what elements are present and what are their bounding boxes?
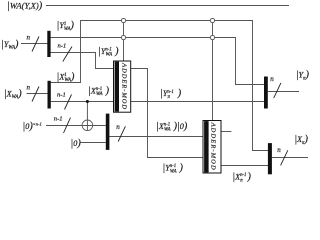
junction dot on X n-1 wire — [86, 100, 89, 103]
svg-text:|0): |0) — [70, 138, 81, 149]
svg-text:n: n — [116, 123, 120, 131]
slash n-1 on Y bundle — [63, 47, 72, 62]
svg-text:|Y1WA): |Y1WA) — [57, 20, 75, 32]
wire Y pi output — [268, 91, 299, 93]
slash n on X input — [32, 87, 39, 102]
svg-text:n: n — [277, 146, 281, 154]
wire adder2 top output stub — [221, 131, 232, 133]
merge bar zero registers — [106, 114, 110, 150]
slash n on X pi output — [281, 150, 288, 165]
op box ADDER-MOD U2 — [203, 121, 221, 174]
svg-text:|WA(Y,X)): |WA(Y,X)) — [7, 1, 43, 12]
svg-text:n-1: n-1 — [54, 115, 63, 122]
wire Y input — [21, 43, 48, 45]
wire Y n-1 bundle to adder 1 — [51, 53, 114, 69]
wire X n-1 bundle to adder 1 — [51, 101, 114, 103]
svg-text:|Yπ): |Yπ) — [296, 70, 310, 82]
svg-text:ADDER-MOD: ADDER-MOD — [121, 62, 128, 110]
svg-text:n-1: n-1 — [58, 43, 67, 50]
wire zero single ancilla — [81, 142, 106, 144]
split bar X register — [48, 81, 51, 109]
svg-text:|Xπ): |Xπ) — [294, 134, 308, 146]
svg-text:n: n — [27, 34, 31, 42]
wire Y1 qubit rail — [51, 38, 265, 85]
wire zero n-1 register — [46, 125, 106, 127]
slash n on Y pi output — [274, 83, 281, 98]
svg-text:|X1WA): |X1WA) — [57, 71, 75, 83]
wire merged X n-1 |0> bundle to adder 2 — [109, 136, 203, 138]
control circle open Y1 at adder2 — [210, 35, 214, 39]
svg-text:n-1: n-1 — [57, 92, 66, 99]
svg-text:ADDER-MOD: ADDER-MOD — [209, 122, 216, 171]
wire X1 qubit rail — [51, 21, 268, 151]
slash n-1 on zero bundle — [64, 118, 71, 133]
control circle open X1 at adder2 — [210, 18, 214, 22]
cnot target (xor) — [82, 120, 93, 131]
wire control drop to adder 1 — [123, 21, 125, 62]
slash n-1 on X bundle — [65, 95, 72, 110]
wire X pi output — [272, 157, 308, 159]
control circle open X1 at adder1 — [121, 18, 125, 22]
wire |WA(Y,X)> top rail — [46, 5, 289, 7]
control circle open Y1 at adder1 — [121, 35, 125, 39]
cnot control line — [86, 102, 88, 131]
split bar Y register — [47, 31, 50, 57]
wire Y n-1 passthrough from adder1 to adder2 — [130, 69, 203, 158]
merge bar Y pi — [264, 77, 268, 109]
svg-text:n: n — [270, 75, 274, 83]
wire X input — [27, 93, 48, 95]
svg-text:n: n — [27, 84, 31, 92]
slash n on merged bundle — [118, 126, 125, 141]
merge bar X pi — [268, 143, 272, 174]
wire control drop to adder 2 — [212, 21, 214, 121]
op box ADDER-MOD U1 — [114, 61, 131, 112]
wire Y n-1 pi sum output — [130, 101, 264, 103]
slash n on Y input — [32, 37, 39, 52]
wire X n-1 pi sum output — [221, 165, 268, 167]
